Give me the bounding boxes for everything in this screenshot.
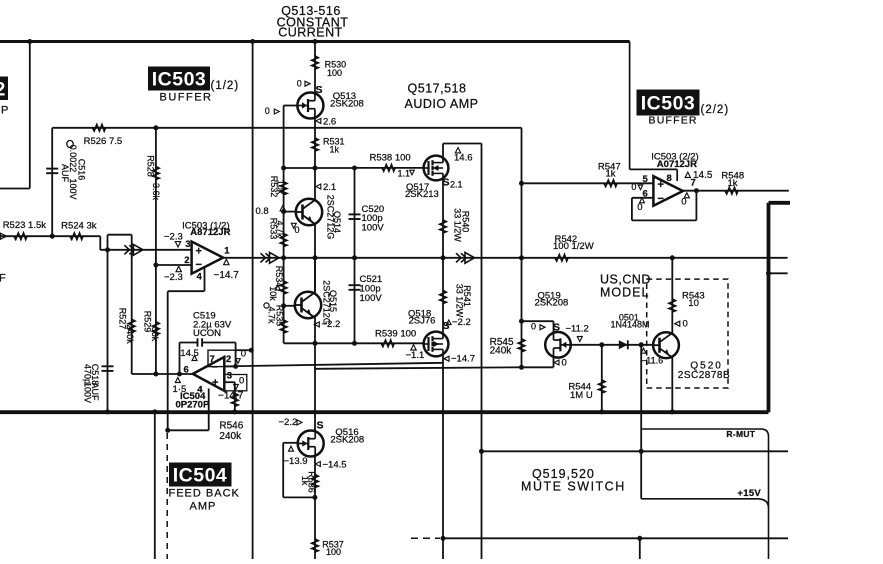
svg-text:−11.2: −11.2 bbox=[566, 323, 589, 334]
svg-text:US,CND: US,CND bbox=[600, 273, 651, 287]
svg-text:1k: 1k bbox=[728, 178, 738, 189]
wire Q515 emitter lead bbox=[314, 317, 316, 344]
svg-text:0: 0 bbox=[295, 225, 300, 235]
svg-text:3: 3 bbox=[185, 239, 190, 250]
wire V- rail x167 bbox=[167, 291, 169, 430]
transistor Q515 2SC2712G bbox=[295, 292, 321, 318]
svg-text:14.5: 14.5 bbox=[693, 170, 713, 181]
capacitor C521 wire bbox=[354, 258, 356, 344]
svg-text:0: 0 bbox=[681, 196, 686, 207]
svg-text:0.8: 0.8 bbox=[256, 206, 269, 217]
wire R537 segment bbox=[314, 497, 316, 559]
node x521 R547 tap bbox=[519, 181, 524, 186]
resistor R524 bbox=[70, 233, 83, 239]
node R544 at bus bbox=[599, 409, 604, 414]
node C516 bottom bbox=[50, 234, 55, 239]
resistor R546 bbox=[232, 393, 238, 406]
svg-text:IC503: IC503 bbox=[641, 93, 696, 115]
marker -13.9 at Q516 bbox=[289, 446, 294, 451]
node top rail / R530 bbox=[313, 39, 318, 44]
marker 14.5 IC503(2/2) bbox=[685, 172, 690, 177]
heavy right vertical bbox=[767, 203, 771, 412]
wire bottom line y538 bbox=[442, 537, 788, 539]
wire R532 segment bbox=[283, 168, 285, 212]
svg-text:AUDIO AMP: AUDIO AMP bbox=[405, 97, 479, 111]
node R545 bottom bbox=[519, 365, 524, 370]
svg-text:R523 1.5k: R523 1.5k bbox=[3, 220, 47, 231]
svg-text:4.7k: 4.7k bbox=[267, 306, 277, 324]
svg-text:R528: R528 bbox=[146, 155, 156, 177]
wire input jog down bbox=[99, 236, 101, 250]
svg-text:−2.2: −2.2 bbox=[279, 417, 298, 428]
wire vertical rail x252 bbox=[252, 42, 254, 560]
svg-text:IC504: IC504 bbox=[173, 465, 228, 487]
capacitor C519 bbox=[197, 338, 199, 346]
svg-text:−2.2: −2.2 bbox=[452, 317, 471, 328]
svg-text:2.1: 2.1 bbox=[450, 180, 463, 190]
op-amp IC504 OP270P bbox=[193, 357, 225, 391]
svg-text:R534: R534 bbox=[274, 266, 284, 288]
svg-text:6: 6 bbox=[184, 365, 189, 376]
wire gate rail x283 bbox=[283, 106, 285, 169]
wire Q513 drain to R531 bbox=[314, 118, 316, 168]
wire R534 segment bbox=[283, 258, 285, 306]
transistor Q518 2SJ76 bbox=[424, 332, 449, 357]
resistor R539 bbox=[381, 340, 394, 346]
label IC503 (1/2) black box bbox=[148, 67, 210, 91]
wire IC502 box bottom edge bbox=[0, 188, 30, 190]
node Q516 loop join bbox=[312, 495, 317, 500]
marker -2.3 pin2 bbox=[176, 266, 181, 271]
wire pin4 drop IC503(1/2) bbox=[204, 268, 206, 291]
flow arrow A3 bbox=[456, 252, 475, 263]
wire y451 line bbox=[482, 450, 789, 452]
svg-text:R539 100: R539 100 bbox=[375, 328, 416, 339]
wire R528/R529 rail x156 bbox=[155, 128, 157, 374]
resistor R536 bbox=[312, 475, 318, 488]
svg-text:100V: 100V bbox=[360, 293, 383, 304]
svg-text:100V: 100V bbox=[362, 222, 385, 233]
svg-text:(1/2): (1/2) bbox=[211, 80, 240, 92]
marker -1.1 at Q518 gate bbox=[411, 345, 416, 350]
marker R534 circle bbox=[264, 303, 269, 308]
svg-text:7: 7 bbox=[210, 354, 215, 365]
svg-text:1: 1 bbox=[224, 246, 230, 257]
wire Q519 drain jog bbox=[522, 366, 554, 368]
node C519 feedback tap bbox=[177, 372, 182, 377]
svg-text:14.6: 14.6 bbox=[454, 152, 473, 163]
wire -input line y265 bbox=[156, 264, 192, 266]
wire Q515 base lead bbox=[284, 305, 295, 307]
node x155 at bus bbox=[152, 409, 157, 414]
wire feedback box left bbox=[631, 198, 633, 221]
capacitor C520 wire bbox=[354, 168, 356, 258]
node mute line y451 bbox=[639, 449, 644, 454]
svg-text:0: 0 bbox=[562, 358, 567, 369]
svg-text:2: 2 bbox=[0, 80, 5, 101]
svg-text:33 1/2W: 33 1/2W bbox=[453, 208, 463, 242]
wire IC504 out line y374 bbox=[132, 373, 193, 375]
marker -11.6 at Q520 base bbox=[641, 348, 646, 353]
node output x672 (R543 tap) bbox=[670, 255, 675, 260]
svg-text:2.6: 2.6 bbox=[323, 117, 336, 128]
flow arrow A1 bbox=[124, 244, 142, 255]
wire +input line y250 bbox=[100, 249, 191, 251]
wire C519 elbow to pin2 bbox=[235, 343, 237, 367]
op-amp IC503 (2/2) A8712JR bbox=[653, 176, 683, 206]
svg-text:+: + bbox=[196, 246, 202, 258]
svg-text:2SK208: 2SK208 bbox=[330, 434, 364, 445]
svg-text:0: 0 bbox=[683, 319, 688, 330]
wire C519 feedback drop bbox=[179, 343, 181, 375]
wire staple left leg bbox=[107, 235, 109, 250]
resistor R523 bbox=[14, 233, 27, 239]
wire Q516 source to R536 bbox=[314, 456, 316, 497]
wire Q517 source to R540 bbox=[442, 180, 444, 258]
wire staple top bbox=[108, 234, 132, 236]
transistor Q513 2SK208 bbox=[297, 93, 323, 119]
wire -in stub IC503(2/2) bbox=[632, 197, 654, 199]
node output x354 (C520/C521) bbox=[352, 255, 357, 260]
wire Q516 gate loop bottom bbox=[283, 496, 315, 498]
svg-text:0: 0 bbox=[265, 106, 270, 116]
svg-text:100V: 100V bbox=[68, 178, 78, 199]
resistor R542 bbox=[555, 255, 568, 261]
node Q518 drain at y538 bbox=[441, 536, 446, 541]
dashed section boundary x167 bbox=[166, 433, 168, 559]
wire C519 right bbox=[202, 342, 236, 344]
marker R534 tri bbox=[275, 285, 280, 290]
wire +in y183 from x521 bbox=[522, 182, 654, 184]
svg-text:Q517,518: Q517,518 bbox=[408, 82, 467, 96]
svg-text:1k: 1k bbox=[330, 144, 340, 154]
svg-text:−1.1: −1.1 bbox=[406, 350, 425, 361]
svg-text:100 1/2W: 100 1/2W bbox=[553, 241, 594, 252]
svg-text:+: + bbox=[658, 179, 664, 191]
svg-text:−14.7: −14.7 bbox=[218, 390, 244, 401]
wire box-top to rail x252 bbox=[236, 349, 252, 351]
wire C519 left bbox=[180, 342, 198, 344]
marker -2.2 at Q515 bbox=[314, 322, 319, 327]
svg-text:2SK208: 2SK208 bbox=[330, 98, 364, 109]
marker circle near C516 bbox=[67, 140, 73, 147]
wire R-MUT line bbox=[641, 429, 768, 559]
diode D501 1N4148M bbox=[619, 340, 628, 349]
svg-text:4.7k: 4.7k bbox=[275, 220, 285, 238]
svg-text:0: 0 bbox=[297, 79, 302, 89]
label IC502 cut box bbox=[0, 77, 8, 101]
svg-text:2: 2 bbox=[226, 354, 231, 365]
svg-text:2SC2712G: 2SC2712G bbox=[326, 195, 336, 240]
wire bias line y168 bbox=[284, 167, 355, 169]
svg-text:0: 0 bbox=[241, 348, 246, 359]
wire IC502 box right edge bbox=[29, 42, 31, 189]
wire feedback box bottom bbox=[632, 219, 697, 221]
wire emitter line y343 bbox=[284, 342, 424, 344]
svg-text:240k: 240k bbox=[219, 431, 242, 442]
wire IC503(1/2) output y258 bbox=[223, 257, 788, 259]
wire Q519 source up bbox=[553, 321, 555, 332]
svg-text:2SC2712G: 2SC2712G bbox=[322, 280, 332, 325]
wire gate line to Q517 bbox=[355, 167, 424, 169]
wire V+ jog bbox=[630, 168, 678, 170]
svg-text:33 1/2W: 33 1/2W bbox=[455, 284, 465, 318]
wire pin3 box bbox=[224, 375, 247, 391]
svg-text:3.6k: 3.6k bbox=[151, 183, 161, 201]
svg-text:0: 0 bbox=[531, 321, 536, 331]
node gate rail y168 bbox=[281, 166, 286, 171]
marker 1-5 IC504 out bbox=[175, 378, 180, 383]
wire input line y236 bbox=[0, 235, 100, 237]
wire feedback line B bbox=[315, 367, 522, 369]
node D501 cathode bbox=[639, 342, 644, 347]
svg-text:−14.5: −14.5 bbox=[323, 459, 347, 470]
svg-text:R538 100: R538 100 bbox=[370, 152, 411, 163]
wire Q519 source jog bbox=[522, 320, 554, 322]
svg-text:0: 0 bbox=[637, 202, 642, 213]
node y451 left end bbox=[479, 449, 484, 454]
marker 2.1 at Q514 bbox=[316, 184, 321, 189]
svg-text:1k: 1k bbox=[606, 169, 616, 180]
heavy bus y412 bbox=[0, 410, 769, 414]
node R528 top bbox=[153, 125, 158, 130]
wire R526 node line y128 bbox=[52, 127, 521, 129]
resistor R532 bbox=[280, 182, 286, 195]
wire R533 segment bbox=[283, 212, 285, 258]
capacitor C520 bbox=[349, 213, 361, 215]
resistor R528 bbox=[153, 167, 159, 180]
svg-text:A8712JR: A8712JR bbox=[190, 227, 230, 238]
node C520 top bbox=[352, 166, 357, 171]
node R544 top bbox=[599, 342, 604, 347]
wire Q517 drain up bbox=[442, 144, 444, 156]
wire R544 drop bbox=[601, 345, 603, 412]
svg-text:−14.7: −14.7 bbox=[451, 354, 475, 365]
wire V- jog right bbox=[168, 429, 209, 431]
node V- rail corner bbox=[165, 428, 170, 433]
svg-text:−11.6: −11.6 bbox=[641, 355, 663, 365]
flow arrow A2 bbox=[261, 252, 280, 263]
resistor R547 bbox=[604, 180, 617, 186]
resistor R538 bbox=[382, 165, 395, 171]
wire Q514 emitter to Q515 bbox=[314, 224, 316, 292]
svg-text:AMP: AMP bbox=[190, 501, 217, 513]
node C521 bottom bbox=[352, 341, 357, 346]
svg-text:36k: 36k bbox=[150, 327, 160, 342]
svg-text:S: S bbox=[553, 321, 560, 333]
node top rail / box corner bbox=[27, 39, 32, 44]
marker 14.6 at Q517 bbox=[455, 148, 460, 153]
svg-text:0: 0 bbox=[631, 182, 636, 192]
node minus input bbox=[153, 263, 158, 268]
marker -14.7 at Q518 bbox=[444, 356, 449, 361]
wire x521 rail bbox=[521, 128, 523, 367]
svg-text:R546: R546 bbox=[219, 420, 243, 431]
transistor Q514 2SC2712G bbox=[296, 199, 322, 225]
wire Q515 collector lead bbox=[314, 258, 316, 294]
svg-text:BUFFER: BUFFER bbox=[649, 115, 698, 127]
resistor R534 bbox=[280, 281, 286, 294]
svg-text:4: 4 bbox=[197, 272, 203, 283]
transistor Q520 2SC2878B bbox=[653, 332, 679, 358]
wire pin8 entry bbox=[676, 169, 678, 181]
svg-text:−13.9: −13.9 bbox=[284, 456, 308, 467]
svg-text:−: − bbox=[658, 193, 664, 205]
svg-text:R524 3k: R524 3k bbox=[61, 220, 97, 231]
wire output y191 bbox=[683, 190, 789, 192]
node y538 x641 bbox=[637, 536, 642, 541]
svg-text:2SJ76: 2SJ76 bbox=[409, 315, 436, 326]
wire Q513 gate bbox=[284, 105, 298, 107]
svg-text:1N4148M: 1N4148M bbox=[611, 319, 650, 329]
svg-text:10: 10 bbox=[688, 298, 699, 309]
node Q514 base bbox=[281, 209, 286, 214]
node Q520 emitter at bus bbox=[670, 409, 675, 414]
svg-text:CURRENT: CURRENT bbox=[278, 26, 343, 40]
svg-text:100: 100 bbox=[326, 547, 341, 557]
resistor R527 bbox=[129, 319, 135, 332]
node Q515 emitter join bbox=[313, 341, 318, 346]
svg-text:2SK208: 2SK208 bbox=[535, 297, 569, 308]
wire drain route top bbox=[443, 143, 482, 145]
resistor R541 bbox=[440, 291, 446, 304]
wire R530 drop bbox=[314, 42, 316, 93]
resistor R529 bbox=[153, 322, 159, 335]
wire Q516 gate loop down bbox=[282, 443, 284, 498]
svg-text:1.1: 1.1 bbox=[398, 169, 411, 179]
svg-text:S: S bbox=[316, 84, 323, 96]
transistor Q517 2SK213 bbox=[424, 156, 449, 181]
wire IC504 pin4 drop bbox=[208, 389, 210, 431]
node Q519 source tap bbox=[519, 319, 524, 324]
marker 0 at pin6 bbox=[640, 198, 645, 203]
svg-text:(2/2): (2/2) bbox=[701, 104, 730, 116]
svg-text:MODEL: MODEL bbox=[600, 286, 649, 300]
node C518 at bus bbox=[105, 409, 110, 414]
wire drain rail x481 bbox=[481, 144, 483, 560]
node top rail / V252 bbox=[250, 39, 255, 44]
svg-text:UCON: UCON bbox=[193, 328, 221, 339]
wire Q520 emitter drop bbox=[671, 357, 673, 412]
wire V+ drop x629 bbox=[629, 42, 631, 170]
wire Q519 gate line bbox=[571, 344, 653, 346]
svg-text:FEED BACK: FEED BACK bbox=[169, 488, 240, 500]
svg-text:240k: 240k bbox=[490, 345, 513, 356]
svg-text:+: + bbox=[212, 377, 218, 389]
wire stub y273 bbox=[769, 272, 788, 274]
svg-text:0: 0 bbox=[239, 376, 244, 387]
svg-text:−2.2: −2.2 bbox=[322, 319, 341, 330]
svg-text:MUTE SWITCH: MUTE SWITCH bbox=[521, 480, 626, 494]
node R531 bottom bbox=[313, 166, 318, 171]
wire R541 segment bbox=[442, 258, 444, 332]
arrow input left edge bbox=[1, 233, 7, 239]
transistor Q519 2SK208 bbox=[545, 332, 571, 358]
resistor R535 bbox=[280, 320, 286, 333]
resistor R548 bbox=[725, 188, 738, 194]
resistor R545 bbox=[518, 339, 524, 352]
wire mute drive x641 bbox=[640, 345, 642, 499]
node heavy/stub y273 bbox=[766, 271, 771, 276]
svg-text:2: 2 bbox=[184, 255, 189, 266]
label IC504 black box bbox=[169, 463, 232, 487]
wire R543 segment bbox=[671, 258, 673, 334]
wire x155 lower rail bbox=[154, 412, 156, 559]
node pin2/C519 junction bbox=[233, 364, 238, 369]
svg-text:10k: 10k bbox=[276, 180, 286, 195]
svg-text:100V: 100V bbox=[83, 382, 93, 403]
heavy top-right stub bbox=[769, 201, 791, 205]
svg-text:P: P bbox=[1, 105, 8, 117]
resistor R530 bbox=[312, 56, 318, 69]
svg-text:8: 8 bbox=[667, 173, 672, 184]
wire R546 drop bbox=[234, 382, 236, 412]
svg-text:−14.7: −14.7 bbox=[214, 270, 240, 281]
svg-text:R526 7.5: R526 7.5 bbox=[84, 136, 123, 147]
svg-text:F: F bbox=[0, 273, 6, 285]
svg-text:2SC2878B: 2SC2878B bbox=[678, 370, 730, 381]
wire bottom line dashed part bbox=[411, 537, 440, 539]
node R529 bottom bbox=[153, 372, 158, 377]
node C518 tap bbox=[105, 247, 110, 252]
svg-text:1M U: 1M U bbox=[570, 390, 593, 401]
svg-text:0P270P: 0P270P bbox=[176, 399, 210, 410]
svg-text:2SK213: 2SK213 bbox=[405, 189, 439, 200]
resistor R526 bbox=[93, 125, 106, 131]
wire R535 segment bbox=[283, 306, 285, 344]
wire top supply rail bbox=[0, 40, 630, 43]
dashed box US-CND model bbox=[647, 279, 728, 388]
svg-text:R-MUT: R-MUT bbox=[726, 429, 755, 439]
svg-text:A0712JR: A0712JR bbox=[657, 159, 697, 170]
op-amp IC503 (1/2) A8712JR bbox=[192, 242, 224, 274]
wire R527 drop bbox=[131, 235, 133, 374]
wire pin4 jog left bbox=[168, 290, 205, 292]
marker out IC503(1/2) bbox=[224, 259, 229, 264]
svg-text:+15V: +15V bbox=[737, 488, 761, 499]
node Q515 base bbox=[281, 303, 286, 308]
wire Q514 collector lead bbox=[314, 168, 316, 200]
svg-text:100: 100 bbox=[327, 68, 342, 78]
node feedback/output bbox=[694, 188, 699, 193]
svg-text:2.1: 2.1 bbox=[323, 182, 336, 193]
svg-text:−2.3: −2.3 bbox=[164, 232, 183, 243]
wire pin2 feedback line bbox=[224, 363, 443, 367]
resistor R543 bbox=[669, 299, 675, 312]
wire pin3 stub bbox=[224, 381, 235, 383]
marker 0 at Q519 drain bbox=[554, 360, 559, 365]
resistor R537 bbox=[312, 539, 318, 552]
marker 2.6 at Q513 bbox=[316, 118, 321, 123]
wire Q514 base lead bbox=[284, 211, 296, 213]
svg-text:S: S bbox=[317, 420, 324, 432]
svg-text:−2.3: −2.3 bbox=[164, 272, 183, 283]
node output line x283 bbox=[281, 255, 286, 260]
wire C518 drop bbox=[107, 250, 109, 412]
node output x521 (R542 tap) bbox=[519, 255, 524, 260]
wire pin7 box bbox=[208, 350, 236, 366]
wire Q518 drain down bbox=[442, 356, 444, 559]
resistor R540 bbox=[440, 220, 446, 233]
wire main rail to Q516 bbox=[314, 343, 316, 431]
node output x443 (R540/R541) bbox=[441, 255, 446, 260]
transistor Q516 2SK208 bbox=[298, 431, 324, 457]
marker 0 at Q514 emitter bbox=[291, 223, 296, 228]
capacitor C521 bbox=[349, 284, 361, 286]
marker -14.5 at Q516 bbox=[315, 462, 320, 467]
wire feedback box right bbox=[695, 191, 697, 221]
resistor R533 bbox=[280, 234, 286, 247]
